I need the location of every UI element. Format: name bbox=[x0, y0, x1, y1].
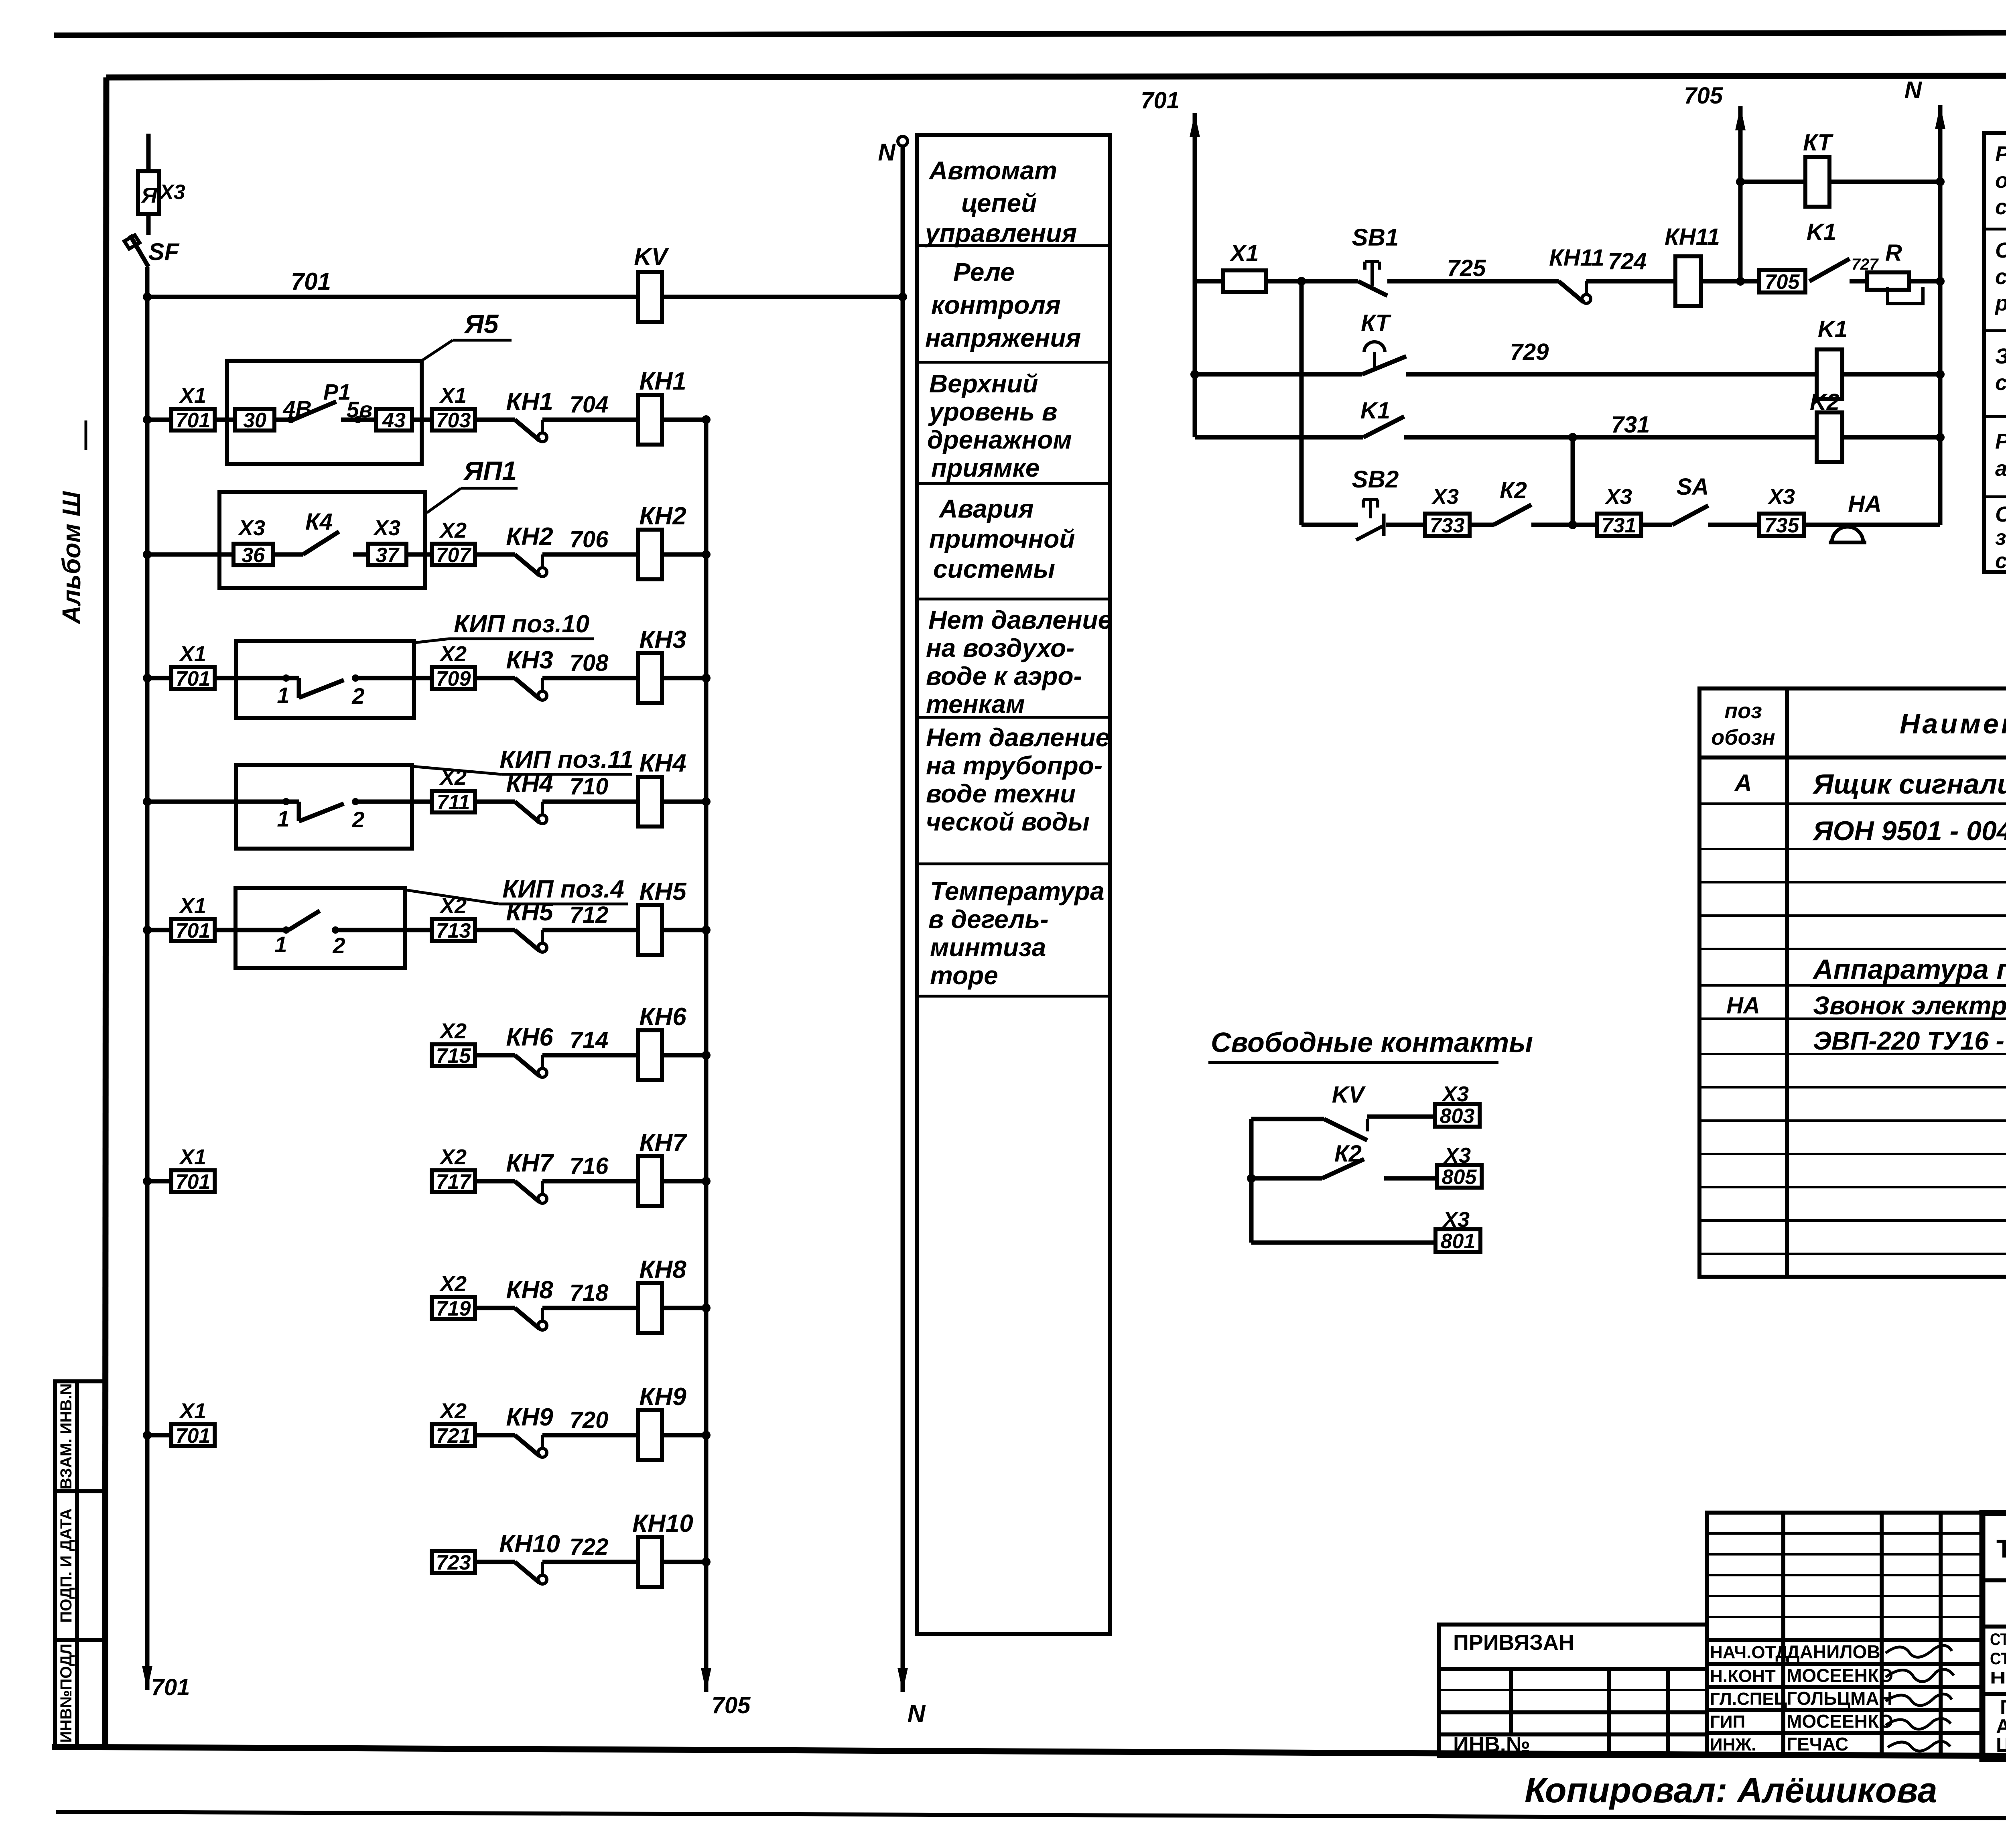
svg-text:X3: X3 bbox=[1443, 1143, 1471, 1168]
signature table row 9 bbox=[1707, 1708, 1982, 1712]
pushbutton SB1 bbox=[1365, 260, 1379, 263]
svg-text:2: 2 bbox=[332, 933, 345, 958]
terminal X2 709 row 3 bbox=[432, 667, 475, 689]
svg-text:Свободные контакты: Свободные контакты bbox=[1211, 1027, 1533, 1058]
inner frame left border bbox=[105, 77, 106, 1749]
svg-text:ИНЖ.: ИНЖ. bbox=[1710, 1735, 1756, 1755]
svg-text:731: 731 bbox=[1602, 514, 1636, 537]
free contact KV wire bbox=[1251, 1117, 1324, 1121]
svg-text:Я: Я bbox=[140, 183, 158, 207]
box YaP1 outline bbox=[219, 492, 425, 588]
svg-text:напряжения: напряжения bbox=[925, 323, 1081, 352]
svg-text:дренажном: дренажном bbox=[927, 425, 1072, 454]
junction dot 701 wire at N bus bbox=[898, 292, 907, 301]
description table divider 6 bbox=[917, 863, 1110, 865]
svg-text:X2: X2 bbox=[439, 894, 467, 918]
wire row 1 into box Ya5 bbox=[215, 418, 236, 422]
svg-text:КН5: КН5 bbox=[506, 898, 554, 926]
svg-text:цепей: цепей bbox=[961, 189, 1037, 217]
wire 710 row 4 bbox=[542, 800, 638, 804]
signature table row 3 bbox=[1707, 1574, 1982, 1576]
free contact K2 bbox=[1322, 1159, 1364, 1178]
svg-text:КН7: КН7 bbox=[506, 1149, 554, 1177]
svg-text:ПРИВЯЗАН: ПРИВЯЗАН bbox=[1453, 1631, 1574, 1655]
relay coil K1 row B bbox=[1817, 349, 1842, 399]
svg-text:Авария: Авария bbox=[938, 494, 1034, 523]
wire resistor to N bus bbox=[1909, 279, 1940, 284]
relay coil KH2 bbox=[638, 530, 662, 579]
svg-text:705: 705 bbox=[1765, 270, 1800, 294]
svg-text:712: 712 bbox=[570, 902, 609, 928]
svg-text:701: 701 bbox=[176, 1170, 211, 1194]
svg-text:воде техни: воде техни bbox=[926, 779, 1076, 808]
svg-text:718: 718 bbox=[570, 1280, 609, 1306]
wire 716 row 7 bbox=[542, 1179, 638, 1184]
description table divider 4 bbox=[917, 598, 1110, 601]
wire row 6 to contact KH6 bbox=[475, 1053, 515, 1058]
svg-text:на трубопро-: на трубопро- bbox=[926, 751, 1102, 780]
switch SA row D bbox=[1672, 506, 1708, 525]
svg-text:НАЧ.ОТД: НАЧ.ОТД bbox=[1710, 1643, 1788, 1662]
svg-text:Срабатывание: Срабатывание bbox=[1995, 238, 2006, 262]
junction dot 701 at left bus bbox=[143, 292, 152, 301]
component table header divider bbox=[1699, 755, 2006, 760]
wire 708 row 3 bbox=[542, 676, 638, 680]
svg-text:КИП поз.11: КИП поз.11 bbox=[499, 746, 633, 774]
wire row 4 box to X2 bbox=[412, 800, 432, 804]
svg-text:Ящик сигнализации Я: Ящик сигнализации Я bbox=[1812, 768, 2006, 800]
wire 725 row A bbox=[1387, 279, 1559, 284]
svg-text:Нет давление: Нет давление bbox=[928, 605, 1112, 634]
contact KH11 row A bbox=[1559, 281, 1584, 302]
wire 714 row 6 bbox=[542, 1053, 638, 1058]
svg-text:N: N bbox=[1904, 77, 1923, 104]
component table row line 1 bbox=[1699, 802, 2006, 805]
privyazan box outline bbox=[1439, 1625, 1707, 1756]
wire row 3 into KIP box bbox=[215, 676, 236, 680]
wire KT coil branch bbox=[1740, 180, 1805, 184]
svg-text:704: 704 bbox=[570, 392, 609, 418]
svg-text:Запоминание: Запоминание bbox=[1995, 344, 2006, 368]
right bus 705 bottom arrow bbox=[701, 1668, 711, 1692]
contact KH8 bbox=[515, 1308, 540, 1329]
wire row 5 to contact KH5 bbox=[475, 928, 515, 932]
junction dot row 4 left bus bbox=[143, 797, 152, 806]
junction dot free contacts K2 bbox=[1247, 1174, 1256, 1183]
svg-text:X1: X1 bbox=[439, 384, 467, 408]
svg-text:713: 713 bbox=[436, 919, 471, 942]
svg-text:43: 43 bbox=[382, 409, 406, 432]
terminal X2 713 row 5 bbox=[432, 919, 475, 941]
privyazan row line 3 bbox=[1439, 1710, 1707, 1714]
time relay coil KT bbox=[1805, 157, 1829, 207]
resistor R row A bbox=[1850, 279, 1867, 284]
svg-text:714: 714 bbox=[570, 1027, 609, 1053]
wire row D from branch bbox=[1301, 523, 1358, 527]
svg-text:731: 731 bbox=[1611, 412, 1650, 438]
svg-text:ПОДП. И ДАТА: ПОДП. И ДАТА bbox=[57, 1509, 75, 1623]
svg-text:контроля: контроля bbox=[931, 290, 1061, 319]
svg-text:ЯП1: ЯП1 bbox=[463, 456, 517, 485]
svg-text:КН3: КН3 bbox=[506, 646, 553, 674]
branch wire SB2 vertical bbox=[1299, 281, 1304, 525]
svg-text:ГИП: ГИП bbox=[1710, 1712, 1745, 1732]
terminal X3 733 row D bbox=[1425, 514, 1470, 536]
svg-text:R: R bbox=[1885, 240, 1902, 266]
component table row line 9 bbox=[1699, 1086, 2006, 1088]
svg-text:K1: K1 bbox=[1360, 398, 1390, 424]
contact KH10 bbox=[515, 1562, 540, 1583]
svg-text:707: 707 bbox=[436, 544, 472, 567]
svg-text:КН10: КН10 bbox=[632, 1510, 693, 1537]
svg-text:поз: поз bbox=[1724, 699, 1762, 723]
terminal X1 703 row 1 bbox=[432, 409, 475, 431]
wire row 4 from bus bbox=[147, 800, 236, 804]
svg-text:Я5: Я5 bbox=[464, 309, 499, 339]
junction dot row 5 right bus bbox=[702, 926, 711, 934]
wire coil KH10 to right bus bbox=[662, 1560, 706, 1564]
relay coil KH11 bbox=[1675, 256, 1701, 306]
wire to coil KH11 bbox=[1586, 279, 1675, 284]
privyazan row line 1 bbox=[1439, 1667, 1707, 1671]
wire row 2 from bus bbox=[147, 552, 233, 557]
svg-text:719: 719 bbox=[436, 1297, 471, 1320]
svg-text:723: 723 bbox=[436, 1551, 471, 1574]
signature table row 10 bbox=[1707, 1731, 1982, 1735]
wire row 8 to contact KH8 bbox=[475, 1306, 515, 1310]
svg-text:4В: 4В bbox=[282, 396, 312, 421]
svg-text:КН5: КН5 bbox=[639, 878, 687, 906]
contact KH7 bbox=[515, 1181, 540, 1202]
svg-text:K1: K1 bbox=[1818, 316, 1848, 342]
svg-text:КН1: КН1 bbox=[639, 368, 686, 395]
svg-text:735: 735 bbox=[1764, 514, 1800, 537]
wire 731 row C bbox=[1404, 435, 1816, 440]
svg-text:X1: X1 bbox=[1229, 240, 1259, 266]
svg-text:Верхний: Верхний bbox=[929, 369, 1038, 398]
svg-text:ГОЛЬЦМАН: ГОЛЬЦМАН bbox=[1787, 1688, 1892, 1709]
right description divider 1 bbox=[1984, 228, 2006, 231]
right description divider 4 bbox=[1984, 496, 2006, 498]
label КИП поз.11 with leader bbox=[412, 766, 501, 774]
svg-text:воде к аэро-: воде к аэро- bbox=[926, 662, 1082, 690]
branch wire row C to row D vertical bbox=[1571, 437, 1575, 525]
component table row line 14 bbox=[1699, 1253, 2006, 1255]
svg-text:Аппаратура по месту: Аппаратура по месту bbox=[1812, 954, 2006, 985]
relay coil KH8 bbox=[638, 1283, 662, 1333]
N bus vertical wire bbox=[901, 146, 905, 1692]
svg-text:управления: управления bbox=[924, 219, 1077, 248]
svg-text:36: 36 bbox=[242, 544, 265, 567]
junction dot KT branch 705 bus bbox=[1736, 177, 1745, 186]
component table row line 11 bbox=[1699, 1153, 2006, 1155]
terminal 30 in box Ya5 bbox=[235, 409, 274, 431]
contact KH3 bbox=[515, 678, 540, 699]
title block row line upper bbox=[1982, 1625, 2006, 1629]
svg-text:МОСЕЕНКО: МОСЕЕНКО bbox=[1787, 1665, 1893, 1686]
wire coil KH5 to right bus bbox=[662, 928, 706, 932]
right N bus arrow bbox=[1935, 105, 1945, 129]
privyazan column 2 bbox=[1607, 1669, 1611, 1756]
svg-text:КН10: КН10 bbox=[499, 1530, 560, 1558]
relay coil KV bbox=[638, 272, 662, 322]
wire KT coil to N bus bbox=[1829, 180, 1940, 184]
component table row line 13 bbox=[1699, 1219, 2006, 1222]
svg-text:Х3: Х3 bbox=[1431, 485, 1459, 509]
svg-text:Звонок электрический: Звонок электрический bbox=[1813, 991, 2006, 1020]
signature table row 2 bbox=[1707, 1553, 1982, 1556]
signature table column 1 bbox=[1781, 1513, 1785, 1756]
left margin box PODP. I DATA bbox=[55, 1491, 105, 1640]
wire stub X1 row 7 bbox=[147, 1179, 171, 1184]
component table row line 3 bbox=[1699, 881, 2006, 883]
wire coil KH7 to right bus bbox=[662, 1179, 706, 1184]
terminal X1 right row A bbox=[1195, 279, 1223, 284]
svg-text:на воздухо-: на воздухо- bbox=[926, 634, 1074, 662]
svg-text:X3: X3 bbox=[1441, 1082, 1469, 1106]
signature table column 2 bbox=[1880, 1513, 1884, 1756]
component table row line 2 bbox=[1699, 848, 2006, 850]
terminal X1 701 row 1 bbox=[171, 409, 215, 431]
svg-text:705: 705 bbox=[712, 1692, 751, 1718]
svg-text:Снятие: Снятие bbox=[1995, 502, 2006, 526]
svg-text:КН11: КН11 bbox=[1549, 245, 1604, 271]
svg-text:X2: X2 bbox=[439, 1019, 467, 1043]
svg-text:K2: K2 bbox=[1810, 389, 1840, 415]
svg-text:SA: SA bbox=[1677, 474, 1709, 500]
svg-text:приямке: приямке bbox=[931, 453, 1040, 482]
svg-text:Реле отстройка: Реле отстройка bbox=[1995, 142, 2006, 166]
junction dot row 3 left bus bbox=[143, 674, 152, 682]
svg-text:X2: X2 bbox=[439, 1399, 467, 1423]
component table row line 12 bbox=[1699, 1186, 2006, 1188]
terminal X2 723 row 10 bbox=[432, 1551, 475, 1573]
svg-text:НОСТЬЮ 100 М3|СУТ.: НОСТЬЮ 100 М3|СУТ. bbox=[1990, 1668, 2006, 1688]
terminal X1 701 row 3 bbox=[171, 667, 215, 689]
terminal 43 in box Ya5 bbox=[376, 409, 412, 431]
svg-text:805: 805 bbox=[1442, 1166, 1477, 1189]
junction dot row 7 right bus bbox=[702, 1177, 711, 1186]
svg-text:X1: X1 bbox=[179, 894, 206, 918]
wire coil KH11 to 705 bus bbox=[1701, 279, 1759, 284]
left margin column divider line bbox=[75, 1381, 79, 1748]
signature table column 3 bbox=[1939, 1513, 1943, 1756]
svg-text:Н.КОНТ: Н.КОНТ bbox=[1710, 1666, 1776, 1686]
terminal X1 701 row 7 bbox=[171, 1170, 215, 1192]
terminal X2 719 row 8 bbox=[432, 1297, 475, 1319]
contact P1 in box Ya5 bbox=[274, 418, 291, 422]
svg-text:803: 803 bbox=[1440, 1105, 1475, 1128]
svg-text:705: 705 bbox=[1684, 83, 1723, 109]
wire row 3 from bus bbox=[147, 676, 171, 680]
svg-text:КН7: КН7 bbox=[639, 1129, 687, 1157]
svg-text:аварии: аварии bbox=[1995, 457, 2006, 481]
svg-text:ВЗАМ. ИНВ.N: ВЗАМ. ИНВ.N bbox=[57, 1383, 75, 1489]
junction dot row 3 right bus bbox=[702, 674, 711, 682]
right description divider 3 bbox=[1984, 415, 2006, 418]
svg-text:X2: X2 bbox=[439, 642, 467, 666]
free contact bottom wire bbox=[1251, 1241, 1435, 1245]
svg-text:обозн: обозн bbox=[1711, 725, 1775, 749]
title block row line middle bbox=[1982, 1692, 2006, 1696]
svg-text:КН8: КН8 bbox=[506, 1276, 553, 1304]
svg-text:А: А bbox=[1734, 770, 1752, 796]
svg-text:НА: НА bbox=[1848, 491, 1882, 517]
terminal X3 801 bbox=[1435, 1229, 1480, 1252]
wire 706 row 2 bbox=[542, 552, 638, 557]
svg-text:1: 1 bbox=[277, 806, 289, 831]
svg-text:торе: торе bbox=[930, 961, 998, 990]
wire row 1 from bus bbox=[147, 418, 171, 422]
svg-text:X2: X2 bbox=[439, 1272, 467, 1296]
svg-text:1: 1 bbox=[274, 932, 287, 957]
svg-text:701: 701 bbox=[176, 409, 211, 432]
wire coil KH6 to right bus bbox=[662, 1053, 706, 1058]
wire coil KH3 to right bus bbox=[662, 676, 706, 680]
relay coil KH9 bbox=[638, 1410, 662, 1460]
svg-text:Автомат: Автомат bbox=[928, 156, 1057, 185]
junction dot row 10 right bus bbox=[702, 1558, 711, 1566]
wire 720 row 9 bbox=[542, 1433, 638, 1438]
svg-text:SB1: SB1 bbox=[1352, 224, 1399, 251]
wire row C from bus bbox=[1195, 435, 1363, 440]
wire stub X1 row 9 bbox=[147, 1433, 171, 1438]
svg-text:X3: X3 bbox=[1442, 1208, 1470, 1232]
wire 712 row 5 bbox=[542, 928, 638, 932]
contact KH9 bbox=[515, 1435, 540, 1456]
right description boxes outline bbox=[1984, 133, 2006, 572]
junction dot row C N bus bbox=[1936, 433, 1945, 442]
junction dot row 9 left bus bbox=[143, 1431, 152, 1440]
terminal X2 715 row 6 bbox=[432, 1044, 475, 1066]
left margin box VZAM.INV.N bbox=[55, 1381, 105, 1491]
wire 731 to SA bbox=[1641, 523, 1672, 527]
terminal X3 731 row D bbox=[1597, 514, 1641, 536]
contact 1-2 in box КИП поз.10 bbox=[236, 676, 286, 680]
terminal X1 701 row 9 bbox=[171, 1424, 215, 1446]
left margin column outer line bbox=[53, 1381, 57, 1748]
resistor loop detail bbox=[1888, 287, 1923, 304]
svg-text:СТАНЦИЯ БИОЛОГИЧЕСКОЙ ОЧИСТКИ: СТАНЦИЯ БИОЛОГИЧЕСКОЙ ОЧИСТКИ bbox=[1990, 1629, 2006, 1649]
component table row line 8 bbox=[1699, 1053, 2006, 1055]
junction dot row 1 right bus bbox=[702, 415, 711, 424]
wire top feeder stub bbox=[146, 134, 151, 171]
svg-text:КН2: КН2 bbox=[639, 502, 686, 530]
junction dot row 4 right bus bbox=[702, 797, 711, 806]
sheet bottom outer border line bbox=[56, 1812, 2006, 1820]
svg-text:ЦИИ.: ЦИИ. bbox=[1996, 1734, 2006, 1756]
wire SB2 to terminal 733 bbox=[1386, 523, 1425, 527]
relay coil KH4 bbox=[638, 777, 662, 827]
svg-text:711: 711 bbox=[437, 791, 470, 814]
svg-text:КН3: КН3 bbox=[639, 626, 686, 654]
junction dot row D branch bbox=[1568, 520, 1577, 529]
svg-text:X1: X1 bbox=[179, 384, 206, 408]
contact K1 row C bbox=[1363, 416, 1404, 437]
wire row 1 box to X1 703 bbox=[412, 418, 432, 422]
svg-text:ТП 902-3-79.88: ТП 902-3-79.88 bbox=[1996, 1534, 2006, 1563]
svg-text:в дегель-: в дегель- bbox=[928, 905, 1049, 934]
wire coil K1 to N bus bbox=[1842, 372, 1940, 377]
privyazan column 3 bbox=[1666, 1669, 1670, 1756]
component table row line 7 bbox=[1699, 1017, 2006, 1020]
svg-text:733: 733 bbox=[1430, 514, 1465, 537]
junction dot row 6 right bus bbox=[702, 1051, 711, 1060]
svg-text:710: 710 bbox=[570, 774, 609, 800]
component table outline bbox=[1699, 688, 2006, 1277]
svg-text:SB2: SB2 bbox=[1352, 466, 1399, 493]
junction dot row 2 left bus bbox=[143, 550, 152, 559]
box КИП поз.10 outline bbox=[236, 641, 414, 718]
svg-text:К2: К2 bbox=[1500, 477, 1527, 504]
wire row 5 into KIP box bbox=[215, 928, 236, 932]
right 701 bus arrow bbox=[1190, 113, 1200, 137]
svg-text:Реле: Реле bbox=[953, 258, 1015, 286]
relay coil KH6 bbox=[638, 1030, 662, 1080]
svg-text:Х3: Х3 bbox=[373, 516, 400, 540]
svg-text:720: 720 bbox=[570, 1407, 609, 1433]
right N bus vertical wire bbox=[1938, 105, 1943, 525]
svg-text:КН11: КН11 bbox=[1665, 224, 1720, 250]
wire row A to branch bbox=[1266, 279, 1358, 284]
svg-text:Альбом Ш: Альбом Ш bbox=[57, 491, 86, 625]
svg-text:минтиза: минтиза bbox=[930, 933, 1046, 962]
wire 729 row B bbox=[1406, 372, 1816, 377]
free contacts left bus bbox=[1249, 1119, 1254, 1243]
svg-text:708: 708 bbox=[570, 650, 609, 676]
relay coil KH10 bbox=[638, 1537, 662, 1587]
svg-text:системы: системы bbox=[933, 554, 1055, 583]
N bus terminal circle bbox=[898, 136, 908, 146]
svg-text:Х3: Х3 bbox=[1604, 485, 1632, 509]
svg-text:X2: X2 bbox=[439, 518, 467, 542]
svg-text:1: 1 bbox=[277, 682, 289, 708]
705 bus arrow right circuit bbox=[1735, 106, 1746, 130]
relay coil KH3 bbox=[638, 653, 662, 703]
contact KH6 bbox=[515, 1055, 540, 1076]
wire row 1 to contact KH1 bbox=[475, 418, 515, 422]
contact 1-2 in box КИП поз.4 bbox=[236, 928, 286, 932]
privyazan row line 2 bbox=[1439, 1689, 1707, 1691]
svg-text:ЭВП-220 ТУ16 - 739. 059 -: ЭВП-220 ТУ16 - 739. 059 -78 bbox=[1813, 1026, 2006, 1055]
svg-text:ГЕЧАС: ГЕЧАС bbox=[1787, 1734, 1848, 1755]
svg-text:КН1: КН1 bbox=[506, 388, 553, 416]
svg-text:37: 37 bbox=[376, 544, 400, 567]
wire coil KH8 to right bus bbox=[662, 1306, 706, 1310]
svg-text:2: 2 bbox=[351, 683, 364, 709]
component table column pos bbox=[1785, 688, 1789, 1277]
svg-text:звукового: звукового bbox=[1995, 526, 2006, 550]
svg-text:709: 709 bbox=[436, 667, 471, 690]
svg-text:тенкам: тенкам bbox=[926, 690, 1025, 719]
wire coil KH2 to right bus bbox=[662, 552, 706, 557]
svg-text:X2: X2 bbox=[439, 1145, 467, 1169]
privyazan column 1 bbox=[1509, 1669, 1513, 1734]
free contact KV bbox=[1324, 1119, 1367, 1140]
svg-text:701: 701 bbox=[176, 919, 211, 942]
description table divider 7 bbox=[917, 995, 1110, 998]
terminal 36 in box YaP1 bbox=[233, 544, 273, 565]
signature table outline bbox=[1707, 1513, 1982, 1756]
wire coil KH4 to right bus bbox=[662, 800, 706, 804]
svg-text:724: 724 bbox=[1608, 248, 1647, 274]
N bus bottom arrow bbox=[897, 1668, 908, 1692]
svg-text:701: 701 bbox=[1141, 87, 1180, 114]
wire 722 row 10 bbox=[542, 1560, 638, 1564]
svg-text:ИНВ.№: ИНВ.№ bbox=[1453, 1732, 1530, 1757]
wire 735 to bell bbox=[1804, 523, 1940, 527]
svg-text:801: 801 bbox=[1441, 1230, 1476, 1253]
